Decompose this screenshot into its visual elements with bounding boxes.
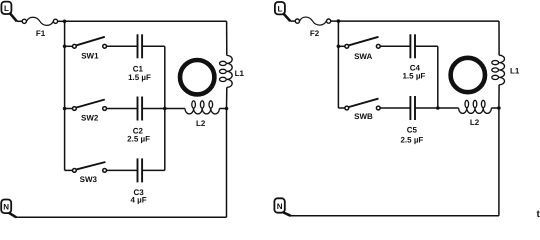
wire bottom rail (291, 215, 499, 217)
wire L2 to node C2R (491, 107, 499, 109)
node A1 (top junction) (63, 20, 67, 24)
wire C1 to middle bus (142, 45, 165, 47)
node row1-left junction (63, 45, 67, 49)
wire fuse to node A1 (58, 20, 65, 22)
switch SW1 (73, 37, 107, 61)
inductor L1 (run winding, right motor) (492, 55, 520, 85)
svg-text:L: L (4, 4, 9, 13)
wire left bus vertical (337, 21, 339, 108)
capacitor C1 1.5 uF (128, 34, 151, 82)
wire SW2 to C2 (107, 108, 138, 110)
wire node B2 to L2 (438, 107, 459, 109)
wire C4 to middle bus (415, 45, 438, 47)
svg-text:L2: L2 (196, 119, 206, 128)
svg-text:2.5 µF: 2.5 µF (400, 135, 423, 144)
node C1R (right bus junction) (225, 107, 229, 111)
wire L1 to node C2R and down to bottom rail (498, 85, 500, 216)
wire node B1 to L2 (165, 108, 185, 110)
wire C5 to node B2 (415, 107, 438, 109)
wire right bus top segment (226, 21, 228, 55)
switch SW2 (73, 100, 107, 123)
capacitor C3 4 uF (131, 158, 147, 204)
wire SWA to C4 (381, 45, 411, 47)
wire top rail to right corner (65, 20, 227, 22)
wire bus to SW2 (65, 108, 73, 110)
svg-text:SWB: SWB (354, 112, 373, 121)
svg-text:L1: L1 (235, 69, 245, 78)
wire left bus vertical (64, 21, 66, 170)
inductor L2 (start winding, left motor) (185, 101, 219, 128)
fuse F1 (22, 17, 57, 38)
wire bus to SW1 (65, 45, 73, 47)
terminal N (left circuit neutral) (1, 200, 11, 214)
svg-text:L2: L2 (470, 118, 480, 127)
svg-text:SW2: SW2 (81, 114, 99, 123)
svg-text:N: N (277, 202, 283, 211)
wire L1 to node C1R and down to bottom rail (226, 87, 228, 217)
wire C3 to middle bus corner (142, 169, 165, 171)
switch SWB (345, 99, 380, 122)
capacitor C2 2.5 uF (127, 97, 150, 144)
motor M2 (right motor body) (451, 58, 485, 92)
terminal L (right circuit line input) (275, 2, 285, 14)
svg-text:SW3: SW3 (80, 175, 98, 184)
node rowA junction (337, 45, 341, 49)
svg-text:1.5 µF: 1.5 µF (402, 72, 425, 81)
switch SW3 (73, 162, 107, 184)
svg-text:SWA: SWA (354, 52, 372, 61)
wire fuse to node A2 (331, 20, 339, 22)
wire bottom rail (16, 216, 227, 218)
node C2R (right bus junction) (497, 106, 501, 110)
terminal N (right circuit neutral) (274, 198, 284, 212)
svg-text:C5: C5 (407, 126, 418, 135)
svg-text:t: t (537, 209, 540, 220)
inductor L1 (run winding, left motor) (220, 55, 245, 87)
node A2 (top junction) (337, 19, 341, 23)
wire top rail to right corner (338, 20, 499, 22)
wire right bus top segment (498, 21, 500, 55)
wire middle bus vertical (164, 46, 166, 170)
terminal L (left circuit line input) (1, 2, 11, 14)
node row2-left junction (63, 107, 67, 111)
wire N terminal to bottom rail (9, 213, 17, 218)
wire L2 to node C1R (219, 108, 226, 110)
node row3 corner / wire bus to SW3 (65, 169, 73, 171)
wire from L terminal to fuse F1 (9, 13, 22, 22)
capacitor C4 1.5 uF (402, 34, 425, 80)
wire SW1 to C1 (107, 45, 138, 47)
wire bus to SWA (338, 45, 344, 47)
inductor L2 (start winding, right motor) (459, 100, 492, 127)
fuse F2 (295, 17, 330, 38)
node B1 (middle bus / L2 tap) (163, 107, 167, 111)
switch SWA (345, 37, 380, 61)
wire SWB to C5 (381, 107, 411, 109)
wire C2 to node B1 (142, 108, 165, 110)
svg-text:F2: F2 (310, 29, 320, 38)
svg-text:SW1: SW1 (81, 51, 99, 60)
svg-text:N: N (3, 202, 9, 211)
capacitor C5 2.5 uF (400, 96, 423, 144)
wire SW3 to C3 (107, 169, 138, 171)
svg-text:F1: F1 (36, 29, 46, 38)
wire bus to SWB (338, 107, 344, 109)
wire N terminal to bottom rail (282, 212, 290, 216)
svg-text:L: L (277, 5, 282, 14)
node B2 (middle bus / L2 tap) (436, 106, 440, 110)
motor M1 (left motor body) (180, 60, 214, 94)
svg-text:4 µF: 4 µF (131, 196, 147, 205)
wire middle bus vertical (437, 46, 439, 108)
svg-text:L1: L1 (510, 67, 520, 76)
svg-text:2.5 µF: 2.5 µF (127, 135, 150, 144)
svg-text:1.5 µF: 1.5 µF (128, 73, 151, 82)
wire from L terminal to fuse F2 (283, 13, 295, 21)
